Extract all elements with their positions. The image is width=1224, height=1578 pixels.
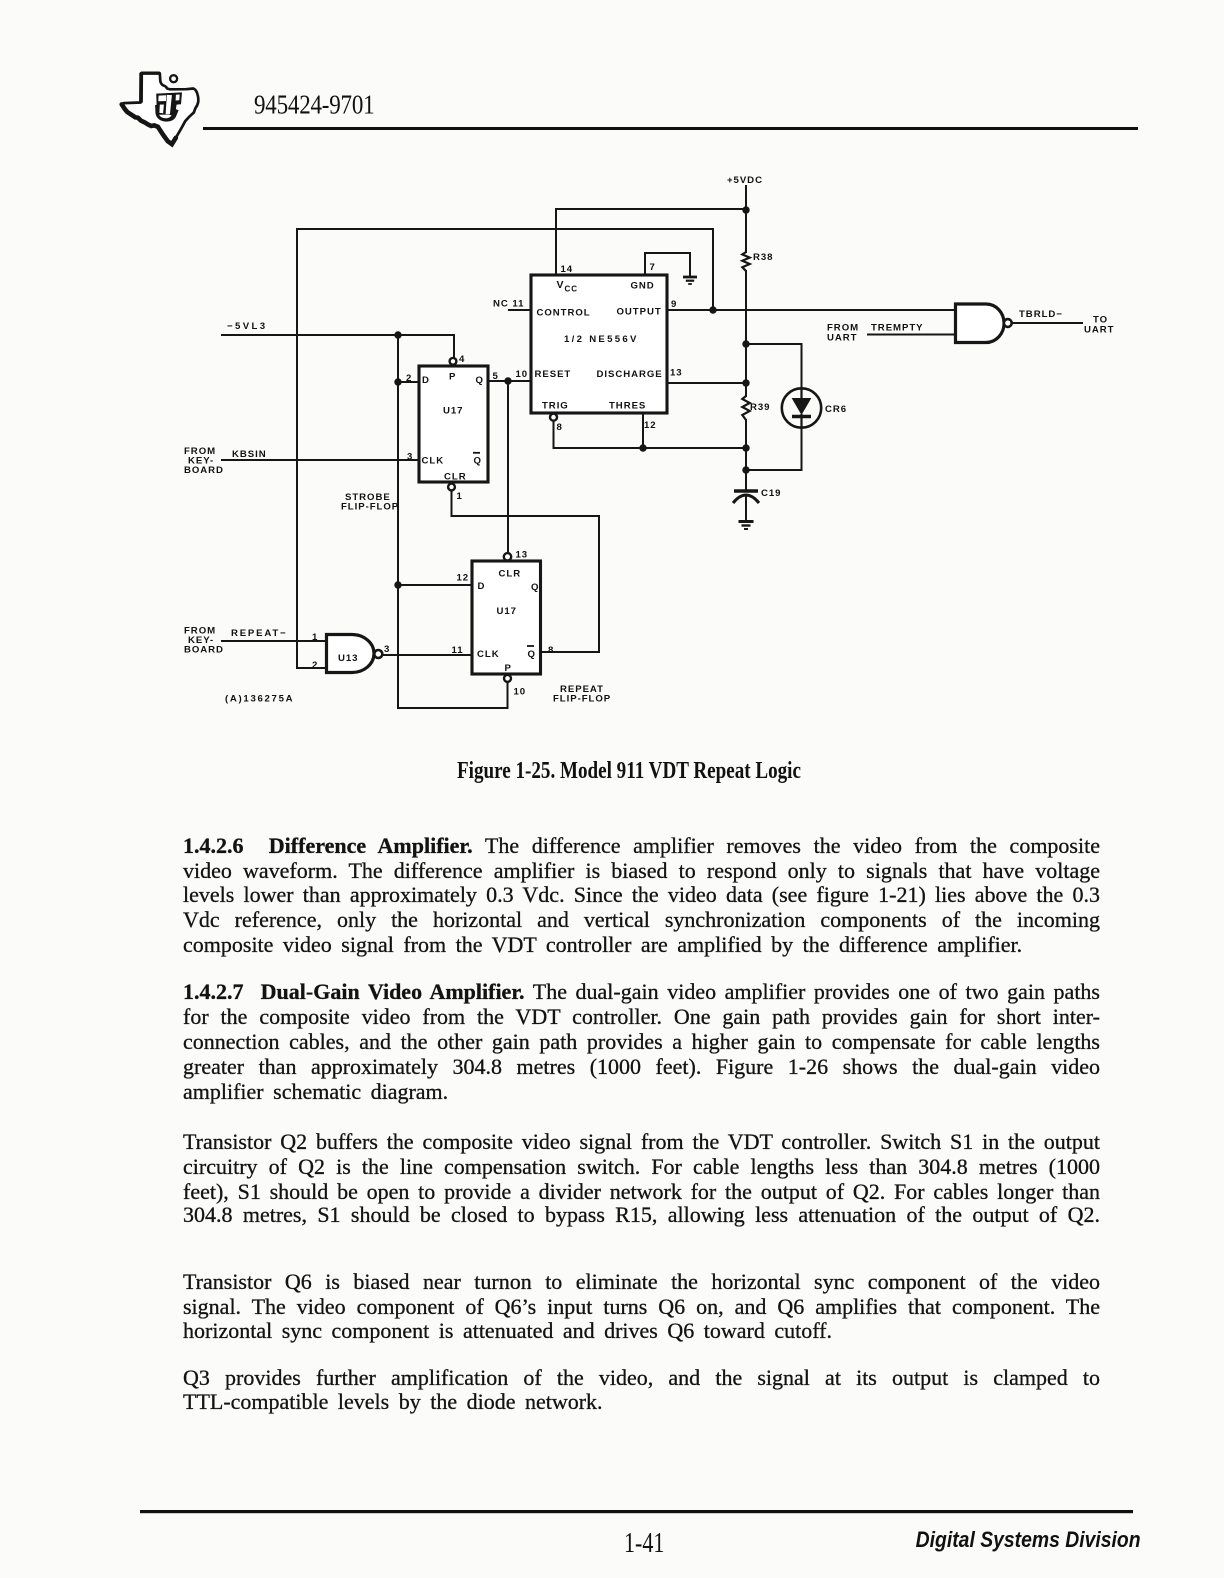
svg-text:BOARD: BOARD [184,465,224,476]
svg-text:Q: Q [474,456,482,467]
wire output feedback upper [297,229,713,668]
wire OUTPUT pin 9 to NAND [667,309,955,311]
svg-text:RESET: RESET [535,369,572,380]
svg-text:2: 2 [312,660,318,671]
svg-text:U17: U17 [497,606,517,617]
svg-text:R39: R39 [750,402,770,413]
junction node -5VL3 [394,331,401,338]
wire CLR pin 1 to Qbar pin 8 [452,490,600,652]
svg-text:(A)136275A: (A)136275A [225,694,294,705]
wire GND pin 7 [645,253,690,276]
svg-text:U17: U17 [443,406,463,417]
svg-text:13: 13 [516,550,529,561]
wire CR6 top branch [746,344,802,389]
wire C19 to ground [745,497,747,521]
flip-flop U17 repeat [472,561,541,674]
svg-text:CR6: CR6 [825,404,847,415]
svg-text:UART: UART [827,333,857,344]
capacitor C19 [733,491,759,503]
header rule [203,127,1138,130]
document number 945424-9701 [254,90,374,121]
svg-text:TBRLD−: TBRLD− [1019,309,1063,320]
junction node Vcc rail [742,206,749,213]
svg-text:13: 13 [670,368,683,379]
wire Q to RESET [488,380,531,382]
svg-text:7: 7 [650,262,656,273]
svg-text:FLIP-FLOP: FLIP-FLOP [341,502,399,513]
svg-text:1: 1 [457,491,463,502]
svg-text:DISCHARGE: DISCHARGE [597,369,663,380]
svg-text:R38: R38 [753,252,773,263]
junction node discharge [742,379,749,386]
wire TREMPTY input [868,334,955,336]
svg-text:10: 10 [516,369,529,380]
junction node CR6 top [742,340,749,347]
i glyph of logo [166,95,172,115]
svg-text:TRIG: TRIG [542,401,569,412]
resistor R39 [742,396,749,420]
svg-text:14: 14 [561,264,574,275]
pin bubble 8 TRIG [550,414,557,421]
junction node CR6 bottom [742,466,749,473]
svg-text:12: 12 [644,420,657,431]
pin bubble 4 P strobe [450,358,457,365]
svg-text:CLR: CLR [499,569,522,580]
pin bubble 1 CLR strobe [448,484,455,491]
svg-text:1: 1 [312,632,318,643]
svg-text:9: 9 [671,299,677,310]
diode CR6 [782,388,821,427]
pin bubble 10 P repeat [504,675,511,682]
svg-text:8: 8 [548,645,554,656]
wire NC stub pin 11 [509,309,531,311]
paragraph transistor Q6 [183,1270,1100,1294]
svg-text:11: 11 [452,645,464,656]
paragraph transistor Q2 [183,1130,1100,1154]
svg-text:Q: Q [528,649,536,660]
i dot of logo [170,75,177,82]
wire D rail to preset pin 10 [398,335,508,708]
svg-text:V: V [557,279,565,291]
svg-text:−5VL3: −5VL3 [227,321,268,332]
NAND gate U13 [327,635,375,673]
wire KBSIN to CLK [222,459,419,461]
footer right: Digital Systems Division [916,1527,1141,1553]
svg-text:BOARD: BOARD [184,645,224,656]
paragraph 1.4.2.6 [183,834,1100,858]
svg-text:1/2 NE556V: 1/2 NE556V [564,334,639,345]
wire TRIG pin 8 to THRES rail [554,421,747,448]
resistor R38 [742,252,749,271]
svg-text:REPEAT−: REPEAT− [231,628,287,639]
junction node thres [742,444,749,451]
figure caption [457,758,801,785]
page number 1-41 [624,1526,664,1561]
svg-text:+5VDC: +5VDC [727,175,763,186]
svg-text:OUTPUT: OUTPUT [617,307,662,318]
svg-text:Q: Q [476,375,484,386]
wire U13 output to CLK pin 11 [383,654,473,656]
svg-text:NC 11: NC 11 [493,299,524,310]
wire D input U17 repeat [398,584,472,586]
wire THRES pin 12 [642,413,644,448]
wire DISCHARGE pin 13 [667,382,746,384]
svg-text:U13: U13 [338,653,358,664]
NAND gate to UART [956,304,1005,343]
pin bubble 13 CLR repeat [504,553,511,560]
wire -5VL3 to preset pin 4 [222,335,454,358]
svg-text:P: P [449,372,456,383]
svg-text:CONTROL: CONTROL [537,308,591,319]
svg-text:D: D [422,375,430,386]
junction node output pin 9 [709,306,716,313]
wire +5VDC rail middle [745,271,747,396]
wire +5VDC rail upper [745,186,747,252]
svg-text:P: P [505,663,512,674]
paragraph Q3 [183,1366,1100,1390]
svg-text:GND: GND [631,281,655,292]
svg-text:5: 5 [493,371,499,382]
wire Vcc pin 14 [556,209,746,275]
junction node Q strobe [504,377,511,384]
svg-text:CC: CC [565,285,578,294]
wire CR6 bottom branch [746,427,802,470]
wire +5VDC rail lower [745,420,747,491]
svg-text:12: 12 [457,573,470,584]
ground at GND pin 7 [683,277,697,284]
wire D input U17 strobe [398,381,419,383]
wire TBRLD- output [1012,322,1082,324]
svg-text:KBSIN: KBSIN [232,449,267,460]
svg-text:2: 2 [406,373,412,384]
wire Q to CLR pin 13 [507,381,509,553]
flip-flop U17 strobe [419,366,488,482]
wire REPEAT- to U13 [222,640,326,642]
paragraph 1.4.2.7 [183,980,1100,1004]
ground below C19 [739,522,754,530]
svg-text:CLK: CLK [422,456,445,467]
svg-text:CLR: CLR [444,472,467,483]
svg-text:Q: Q [531,582,539,593]
IC 1/2 NE556V timer [531,275,667,413]
svg-text:D: D [478,581,486,592]
svg-text:3: 3 [407,452,413,463]
svg-text:THRES: THRES [609,401,646,412]
footer rule [140,1510,1133,1513]
svg-text:10: 10 [514,687,527,698]
t glyph of logo [155,92,182,121]
svg-text:TREMPTY: TREMPTY [871,323,924,334]
junction node pin12 [639,444,646,451]
svg-text:4: 4 [459,354,465,365]
TI logo (Texas outline) [122,73,199,144]
svg-text:FLIP-FLOP: FLIP-FLOP [553,694,611,705]
junction node D strobe [394,378,401,385]
svg-text:C19: C19 [761,488,781,499]
svg-text:8: 8 [557,422,563,433]
svg-text:CLK: CLK [477,649,500,660]
junction node D repeat [394,581,401,588]
svg-text:UART: UART [1084,325,1114,336]
svg-text:3: 3 [384,644,390,655]
